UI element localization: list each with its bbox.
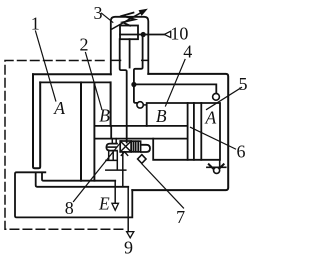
svg-text:3: 3 — [94, 3, 103, 23]
lower seat bar — [106, 169, 126, 171]
chamber B-left right wall — [110, 82, 112, 126]
poppet stems — [117, 152, 123, 187]
valve body box U3 — [120, 26, 138, 40]
svg-text:4: 4 — [183, 42, 192, 62]
inner top line (left half) — [40, 81, 110, 83]
seat ball — [214, 167, 220, 173]
spring arrowhead (filled) — [139, 9, 146, 15]
sleeve wall — [93, 82, 95, 180]
poppet caret — [121, 152, 127, 156]
capsule pedestal + foot — [106, 151, 117, 161]
svg-text:8: 8 — [65, 198, 74, 218]
piston plate bottom line — [94, 138, 187, 140]
port 10 open arrowhead — [164, 31, 170, 37]
upper channel line — [42, 173, 115, 181]
hatched box (piston) — [131, 141, 140, 152]
seat right tick — [219, 164, 224, 169]
spring (zigzag) — [123, 13, 136, 26]
enclosure bottom edge segments — [112, 59, 148, 61]
capsule midline — [108, 146, 117, 148]
seat line — [207, 166, 226, 168]
svg-text:A: A — [53, 98, 65, 118]
dashed enclosure boundary — [5, 61, 126, 230]
leader line 6 — [191, 127, 236, 149]
seat left tick — [209, 164, 214, 169]
svg-text:1: 1 — [31, 14, 40, 34]
bottom pipe outline — [15, 172, 132, 217]
port 9 arrow — [127, 232, 134, 238]
valve stem stub — [129, 39, 131, 67]
right capsule — [141, 145, 150, 152]
svg-text:10: 10 — [170, 24, 188, 44]
pipe P1 from valve box bottom-left — [120, 39, 127, 142]
svg-text:9: 9 — [124, 237, 133, 257]
svg-text:B: B — [156, 106, 167, 126]
leader line 3 — [102, 13, 113, 22]
right block internal wall b — [193, 103, 195, 160]
svg-text:B: B — [99, 106, 110, 126]
leader line 1 — [36, 31, 56, 101]
piston plate top line — [94, 125, 187, 127]
right block internal wall a — [187, 103, 189, 160]
lower channel line — [36, 173, 129, 187]
plate internal connector — [110, 126, 112, 139]
right block outline — [147, 103, 220, 160]
right block internal wall c — [200, 103, 202, 160]
svg-text:6: 6 — [237, 142, 246, 162]
svg-text:5: 5 — [239, 74, 248, 94]
X-box valve 8 — [120, 141, 131, 152]
body top edge right + right side + bottom right edge — [132, 74, 228, 190]
rod wall — [80, 82, 82, 180]
ball (circle) part 5 — [213, 93, 220, 100]
left cylinder outer wall + bottom cap + inner wall — [33, 74, 40, 168]
pipe from D2 to right, down to ball valve 5 — [134, 84, 216, 93]
svg-text:7: 7 — [176, 207, 185, 227]
port ball below D2 — [137, 102, 143, 108]
staircase pipe from D1 down to D2 — [134, 35, 143, 103]
line to port 10 — [120, 34, 164, 36]
junction dot D1 — [141, 32, 146, 37]
adjustment arrow through spring — [112, 12, 143, 29]
leader line 5 — [207, 88, 242, 110]
leader line 2 — [86, 53, 102, 109]
port 9 pipe — [127, 187, 129, 232]
svg-text:A: A — [204, 108, 216, 128]
leader line 4 — [166, 60, 186, 107]
exhaust tube under plate — [112, 139, 116, 144]
leader line 8 — [74, 141, 122, 202]
diamond part 7 — [138, 155, 146, 164]
svg-text:2: 2 — [80, 35, 89, 55]
port E stem + arrow — [114, 181, 116, 204]
svg-text:E: E — [98, 193, 110, 213]
valve U3 enclosure — [111, 17, 149, 75]
block corner stub — [219, 160, 221, 167]
left capsule (pilot piston) — [106, 144, 117, 151]
leader line 7 — [142, 164, 184, 208]
body top edge (left of tower) — [33, 73, 111, 75]
ball-to-wall stub — [143, 104, 146, 106]
junction dot D2 — [131, 82, 136, 87]
